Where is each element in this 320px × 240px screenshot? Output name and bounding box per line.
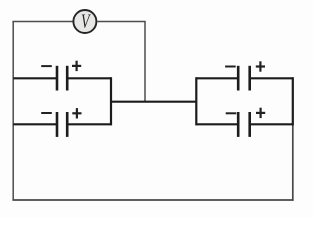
wire: left vertical (outer loop)	[12, 22, 14, 201]
wire: top horizontal, left segment to voltmeter	[12, 21, 72, 23]
voltmeter V	[73, 9, 96, 33]
wire: middle connecting wire	[111, 101, 196, 103]
wire: right pair top branch, left lead	[196, 77, 238, 79]
wire: left pair top branch, right lead	[67, 77, 111, 79]
wire: right pair bottom branch, left lead	[196, 123, 238, 125]
capacitor C1 (top left)	[57, 66, 67, 91]
label: C3 minus terminal	[225, 66, 236, 68]
label: C1 minus terminal	[41, 65, 52, 67]
wire: left pair top branch, left lead	[13, 77, 57, 79]
wire: right pair top branch, right lead	[250, 77, 293, 79]
wire: voltmeter drop vertical	[144, 22, 146, 102]
wire: right vertical lower (outer loop)	[292, 124, 294, 201]
wire: left pair bottom branch, right lead	[67, 123, 111, 125]
wire: right pair left junction vertical	[195, 77, 197, 125]
label: C4 minus terminal	[226, 112, 237, 114]
wire: right pair bottom branch, right lead	[250, 123, 293, 125]
label: C2 minus terminal	[41, 112, 52, 114]
wire: bottom horizontal (outer loop)	[12, 199, 293, 201]
label: C4 plus terminal	[256, 108, 265, 118]
label: C1 plus terminal	[72, 61, 81, 71]
wire: top horizontal, voltmeter to corner	[97, 21, 145, 23]
wire: left pair bottom branch, left lead	[13, 123, 57, 125]
wire: right pair right junction vertical	[292, 77, 294, 125]
label: C2 plus terminal	[72, 108, 81, 118]
capacitor C2 (bottom left)	[57, 112, 67, 137]
capacitor C3 (top right)	[238, 66, 250, 91]
capacitor C4 (bottom right)	[238, 112, 250, 137]
label: C3 plus terminal	[256, 61, 265, 71]
wire: left pair right junction vertical	[110, 77, 112, 125]
